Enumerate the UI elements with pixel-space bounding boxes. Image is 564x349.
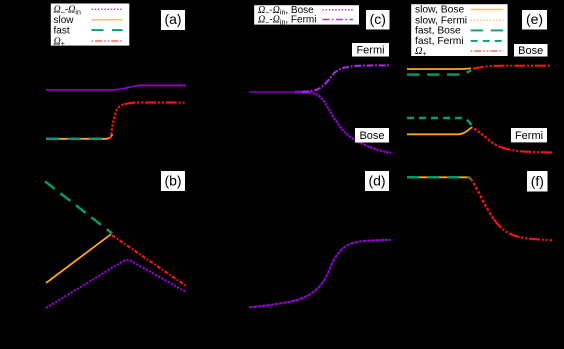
curve omega- Fermi (purple dash-dot) panel c (302, 65, 391, 91)
curve slow (orange) panel f (407, 176, 469, 178)
legend box panel a (50, 3, 129, 46)
svg-text:(b): (b) (164, 173, 181, 189)
legend c row1 sample: purple dotted (322, 9, 353, 11)
curve omega- Bose (purple dotted) panel c (249, 91, 296, 93)
curve omega+ flat part (red dash-dot) panel a (125, 103, 187, 105)
curve fast (green dashed) panel f (407, 177, 471, 179)
curve omega+ Bose (red dash-dot) panel e (473, 66, 552, 69)
legend e row5 sample: red dash-dot (471, 50, 504, 52)
panel label (b) (161, 171, 185, 191)
curve omega+ flat part (red dash-dot) panel f (494, 220, 552, 241)
purple plateau thicker part panel a (137, 84, 186, 86)
node label Fermi panel c (352, 43, 389, 57)
curve slow (orange) panel b (46, 234, 111, 283)
svg-text:Fermi: Fermi (515, 130, 543, 142)
curve slow (orange) panel a (46, 134, 113, 139)
curve fast (green dashed) panel a (46, 138, 110, 140)
curve omega- Bose (purple dotted) panel c (302, 92, 391, 152)
svg-text:fast: fast (54, 26, 70, 37)
legend e row2 sample: orange dotted (471, 19, 504, 21)
legend a row2 sample: orange solid (92, 19, 123, 21)
legend e row1 sample: orange solid (471, 9, 504, 11)
curve omega+ (red dash-dot) panel b (112, 235, 187, 286)
svg-text:Fermi: Fermi (356, 44, 384, 56)
curve fast Bose (green long dash) panel e (407, 70, 471, 74)
legend e row3 sample: green long dash (471, 29, 504, 31)
node label Bose panel c (355, 128, 389, 143)
legend e row4 sample: green short dash (471, 40, 504, 42)
merged thick segment before bifurcation panel c (295, 91, 310, 94)
legend c row2 sample: purple dash-dot (322, 19, 353, 21)
svg-text:Bose: Bose (518, 45, 543, 57)
svg-text:(f): (f) (531, 173, 544, 189)
panel label (c) (366, 10, 390, 30)
curve omega- - omega_in (purple dotted) panel a (46, 85, 186, 90)
panel label (e) (522, 10, 547, 30)
curve omega- - omega_in (purple dotted) panel b (46, 260, 186, 308)
curve omega+ Fermi (red dash-dot) panel e (474, 129, 500, 147)
panel label (a) (161, 10, 185, 30)
curve slow Fermi (orange) panel e (407, 127, 472, 134)
svg-text:(e): (e) (526, 11, 543, 27)
svg-text:fast, Bose: fast, Bose (415, 26, 461, 37)
node label Fermi panel e (511, 128, 547, 142)
legend box panel e (411, 4, 508, 57)
legend a row3 sample: green dashed (92, 29, 123, 31)
curve omega+ Fermi flat part (red dash-dot) panel e (500, 147, 552, 153)
svg-text:(c): (c) (370, 11, 386, 27)
panel label (d) (365, 171, 389, 191)
svg-text:(a): (a) (164, 11, 181, 27)
legend a row1 sample: purple dotted (92, 8, 123, 10)
curve fast (green dashed) panel b (45, 181, 112, 233)
curve omega+ (red dash-dot) panel a (111, 104, 125, 138)
svg-text:(d): (d) (368, 173, 385, 189)
svg-text:slow, Bose: slow, Bose (415, 5, 464, 16)
curve omega- (purple, Bose+Fermi overlap) panel d (249, 240, 391, 307)
legend box panel c (254, 5, 360, 25)
svg-text:Bose: Bose (359, 130, 384, 142)
curve fast Fermi (green short dash) panel e (407, 118, 472, 127)
panel label (f) (527, 171, 548, 192)
curve omega+ (red dash-dot) panel f (471, 179, 494, 220)
curve slow Bose (orange) panel e (407, 67, 471, 70)
legend a row4 sample: red dash-dot (92, 40, 123, 42)
node label Bose panel e (514, 44, 548, 57)
